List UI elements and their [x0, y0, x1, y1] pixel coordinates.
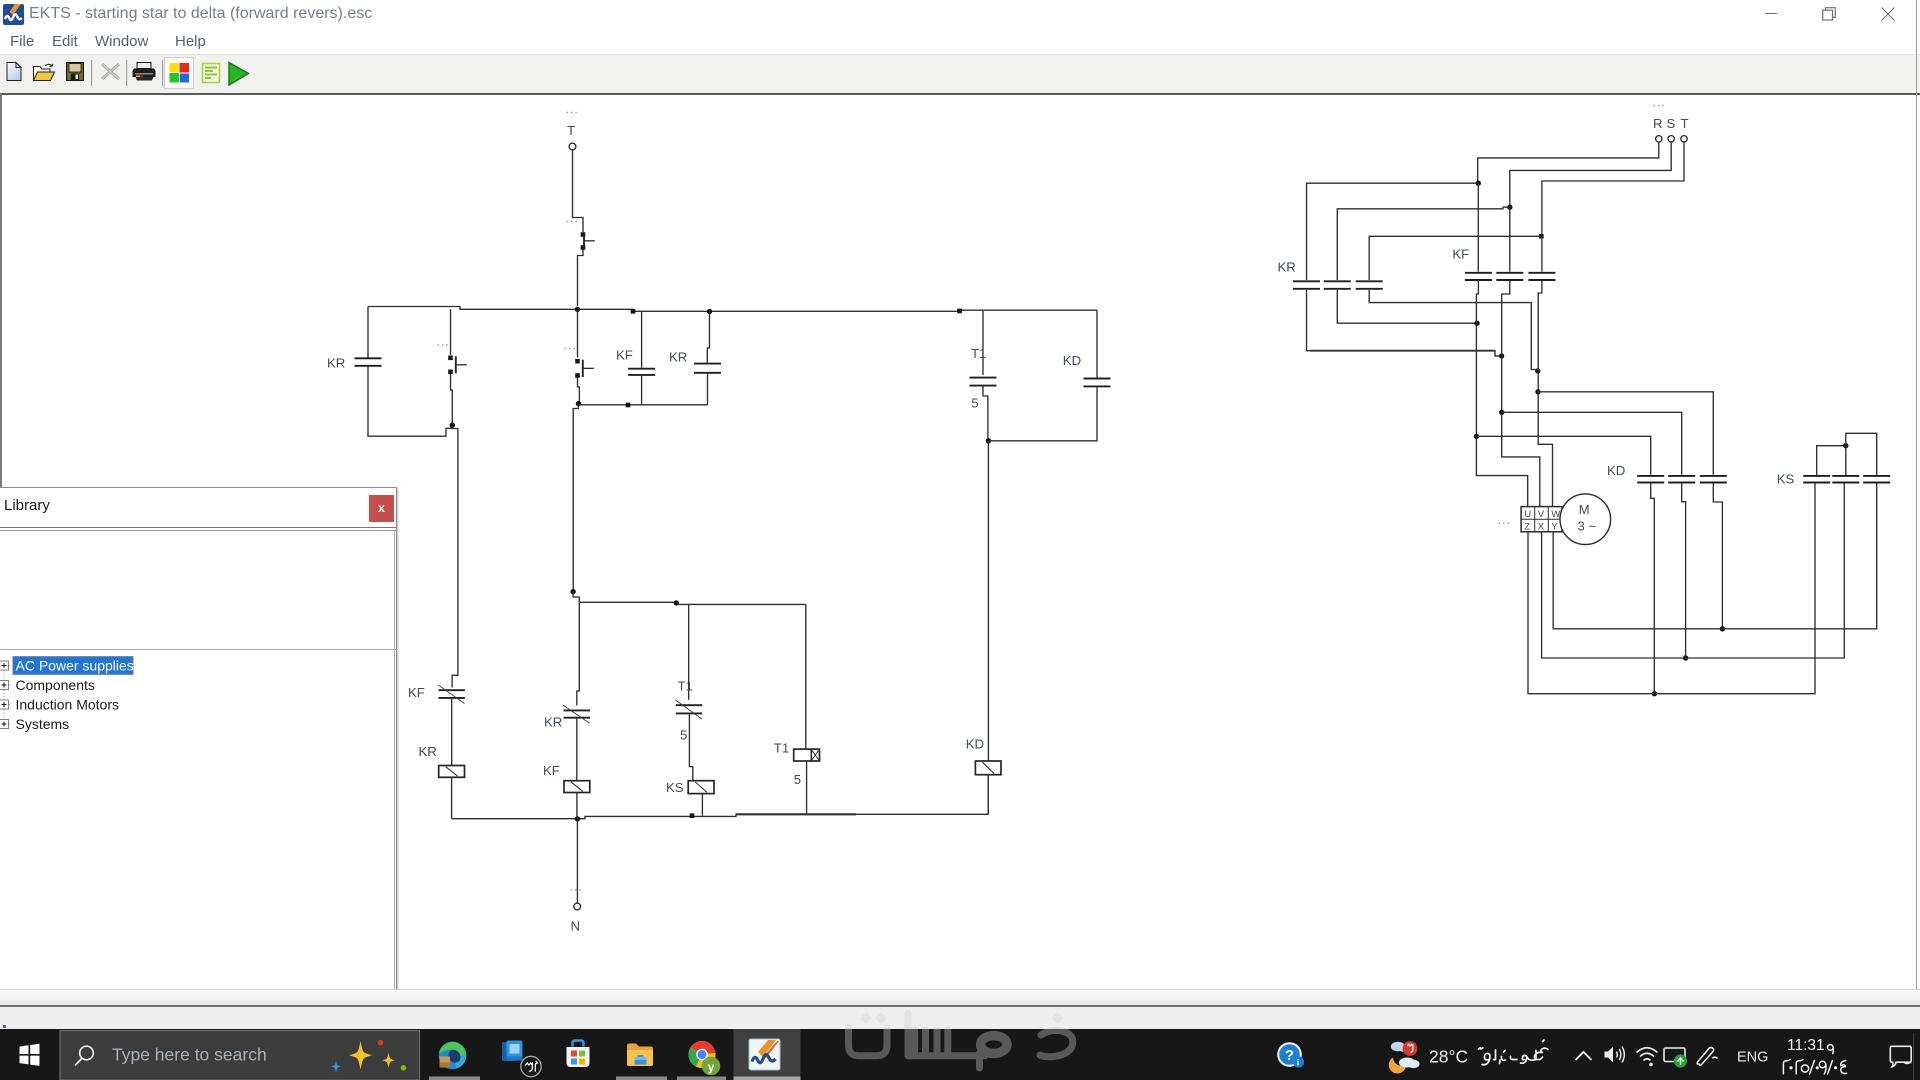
- svg-text:ENG: ENG: [1737, 1050, 1768, 1066]
- svg-text:KS: KS: [1777, 472, 1795, 487]
- svg-text:3 ~: 3 ~: [1578, 519, 1597, 534]
- svg-text:5: 5: [680, 728, 687, 743]
- svg-text:KR: KR: [1278, 260, 1296, 275]
- svg-text:Systems: Systems: [16, 716, 70, 732]
- svg-text:KR: KR: [544, 715, 562, 730]
- svg-text:R: R: [1653, 116, 1663, 131]
- svg-text:5: 5: [971, 396, 978, 411]
- svg-text:KD: KD: [966, 737, 984, 752]
- svg-text:?: ?: [1285, 1047, 1294, 1064]
- svg-text:28°C: 28°C: [1429, 1047, 1468, 1067]
- svg-text:11:31: 11:31: [1787, 1037, 1825, 1054]
- svg-text:N: N: [571, 919, 581, 934]
- svg-text:5: 5: [794, 772, 801, 787]
- svg-text:i: i: [1297, 1057, 1300, 1067]
- svg-text:Z: Z: [1524, 522, 1530, 533]
- svg-text:M: M: [1579, 502, 1590, 517]
- svg-text:Type here to search: Type here to search: [112, 1045, 267, 1065]
- svg-text:KF: KF: [1452, 247, 1469, 262]
- svg-text:AC Power supplies: AC Power supplies: [16, 658, 134, 674]
- svg-text:KR: KR: [419, 744, 437, 759]
- svg-text:KD: KD: [1063, 353, 1081, 368]
- svg-text:KF: KF: [543, 763, 560, 778]
- svg-text:T1: T1: [774, 741, 789, 756]
- svg-text:T: T: [1681, 116, 1689, 131]
- svg-text:Y: Y: [1551, 522, 1558, 533]
- svg-text:X: X: [1538, 522, 1545, 533]
- svg-text:KD: KD: [1607, 463, 1625, 478]
- svg-text:T1: T1: [678, 679, 693, 694]
- svg-text:T: T: [567, 123, 575, 138]
- svg-text:KS: KS: [666, 780, 684, 795]
- svg-text:W: W: [1551, 509, 1560, 520]
- svg-text:KF: KF: [408, 685, 425, 700]
- svg-text:S: S: [1667, 116, 1676, 131]
- svg-text:KF: KF: [616, 348, 633, 363]
- svg-text:KR: KR: [327, 356, 345, 371]
- svg-text:y: y: [708, 1060, 715, 1074]
- svg-text:V: V: [1538, 509, 1545, 520]
- svg-text:Induction Motors: Induction Motors: [16, 697, 120, 713]
- svg-text:U: U: [1524, 509, 1531, 520]
- svg-text:T1: T1: [971, 346, 986, 361]
- svg-text:Components: Components: [16, 677, 95, 693]
- svg-text:KR: KR: [669, 350, 687, 365]
